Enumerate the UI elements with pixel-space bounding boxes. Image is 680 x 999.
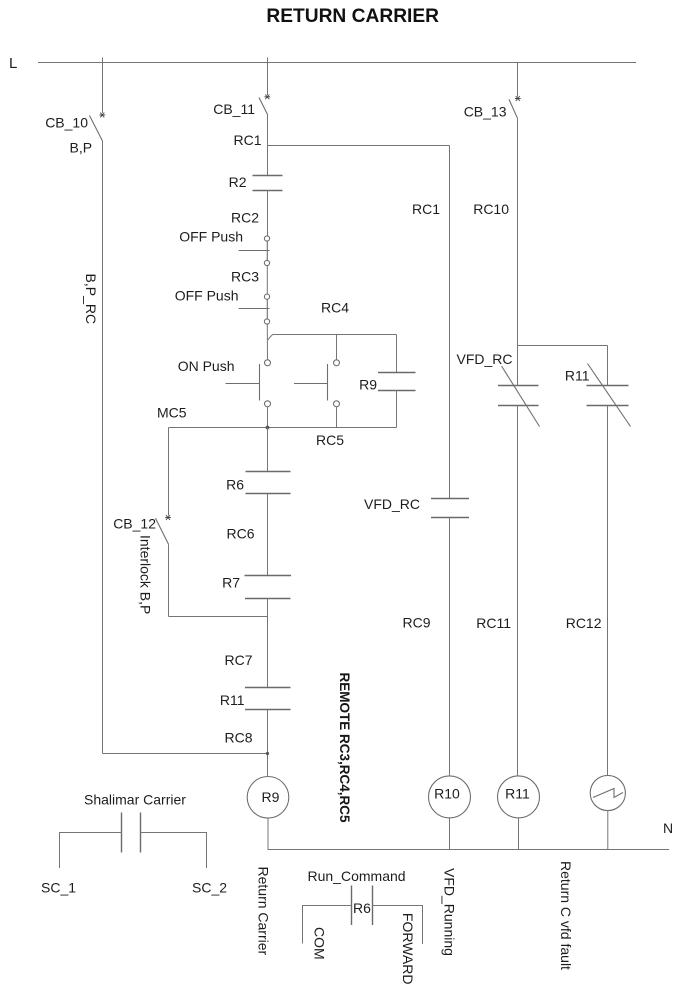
svg-text:RETURN CARRIER: RETURN CARRIER xyxy=(266,6,439,27)
svg-text:R2: R2 xyxy=(229,174,247,190)
wire SC_2 lead xyxy=(141,833,207,869)
svg-text:N: N xyxy=(663,820,673,836)
breaker CB_10 x-marker xyxy=(99,113,105,118)
wire xyxy=(267,494,269,576)
svg-text:RC10: RC10 xyxy=(473,201,509,217)
svg-text:RC6: RC6 xyxy=(226,526,254,542)
capacitor Shalimar Carrier xyxy=(122,813,141,853)
breaker CB_12 x-marker xyxy=(165,515,171,520)
N bus xyxy=(268,849,670,851)
breaker CB_11 x-marker xyxy=(264,94,270,99)
svg-text:COM: COM xyxy=(312,927,328,960)
svg-text:Return Carrier: Return Carrier xyxy=(256,867,272,956)
breaker CB_12 blade xyxy=(156,518,169,544)
svg-text:CB_13: CB_13 xyxy=(464,104,507,120)
svg-text:ON Push: ON Push xyxy=(178,358,235,374)
wire RC4 branch top xyxy=(273,334,397,336)
svg-text:RC12: RC12 xyxy=(566,615,602,631)
svg-text:VFD_RC: VFD_RC xyxy=(456,351,512,367)
contact R2 xyxy=(253,176,283,191)
wire CB_12 return branch xyxy=(169,616,268,618)
wire ON push lower stub xyxy=(267,407,269,428)
pushbutton ON Push (NO) xyxy=(226,360,271,407)
contact RC4 seal-in (NO) xyxy=(294,335,340,428)
breaker CB_11 blade xyxy=(259,98,268,115)
svg-text:SC_1: SC_1 xyxy=(41,880,76,896)
wire FORWARD lead xyxy=(373,906,423,945)
wire chamfer to RC4 branch xyxy=(268,335,273,341)
contact R11 xyxy=(245,688,291,710)
wire R11 contact column xyxy=(607,346,609,386)
svg-text:RC1: RC1 xyxy=(233,132,261,148)
svg-text:R7: R7 xyxy=(222,575,240,591)
wire RC1 column xyxy=(449,146,451,499)
svg-text:R11: R11 xyxy=(565,368,590,384)
svg-text:VFD_RC: VFD_RC xyxy=(364,496,420,512)
contact R6 (Run_Command) xyxy=(352,886,373,926)
wire xyxy=(449,518,451,777)
svg-text:RC7: RC7 xyxy=(224,652,252,668)
contact VFD_RC (NC) xyxy=(498,366,540,427)
svg-text:R6: R6 xyxy=(226,477,244,493)
svg-text:RC9: RC9 xyxy=(402,615,430,631)
coil R9 xyxy=(247,777,289,819)
breaker CB_13 blade xyxy=(509,99,518,118)
wire SC_1 lead xyxy=(60,833,122,869)
pushbutton OFF Push 2 (NC) xyxy=(239,294,270,324)
svg-text:OFF Push: OFF Push xyxy=(179,229,243,245)
svg-text:SC_2: SC_2 xyxy=(192,880,227,896)
svg-text:R6: R6 xyxy=(353,900,371,916)
contact R7 xyxy=(245,576,292,599)
svg-text:B,P: B,P xyxy=(70,140,93,156)
svg-text:CB_11: CB_11 xyxy=(213,101,255,117)
fault indicator symbol xyxy=(593,789,623,798)
fault indicator lamp xyxy=(590,775,625,810)
wire COM lead xyxy=(303,906,352,944)
wire left column xyxy=(102,141,104,754)
wire xyxy=(267,599,269,688)
contact R9 xyxy=(378,373,416,391)
wire xyxy=(449,818,451,850)
svg-text:B,P_RC: B,P_RC xyxy=(83,274,99,325)
svg-text:RC11: RC11 xyxy=(476,615,511,631)
wire xyxy=(266,266,268,294)
svg-text:RC3: RC3 xyxy=(231,269,259,285)
svg-text:Run_Command: Run_Command xyxy=(308,868,406,884)
lamp R10 xyxy=(429,776,471,818)
contact R11 (NC) xyxy=(587,364,631,427)
svg-text:R11: R11 xyxy=(220,692,245,708)
lamp R11 xyxy=(498,776,540,818)
wire main column top xyxy=(267,58,269,96)
svg-text:Shalimar Carrier: Shalimar Carrier xyxy=(84,792,186,808)
svg-text:R9: R9 xyxy=(359,377,377,393)
svg-text:VFD_Running: VFD_Running xyxy=(442,868,458,956)
wire xyxy=(607,811,609,850)
wire xyxy=(266,324,268,360)
svg-text:RC1: RC1 xyxy=(412,201,440,217)
wire CB_13 column top xyxy=(517,63,519,97)
svg-text:RC8: RC8 xyxy=(224,730,252,746)
svg-text:L: L xyxy=(9,55,17,72)
wire xyxy=(396,391,398,428)
svg-text:RC4: RC4 xyxy=(321,300,349,316)
pushbutton OFF Push 1 (NC) xyxy=(239,236,270,266)
wire xyxy=(267,115,269,176)
svg-text:Return C vfd fault: Return C vfd fault xyxy=(558,861,574,970)
svg-text:R11: R11 xyxy=(505,786,530,802)
svg-text:CB_10: CB_10 xyxy=(45,115,88,131)
junction RC8 xyxy=(266,752,269,755)
wire xyxy=(267,818,269,849)
svg-text:RC5: RC5 xyxy=(316,432,344,448)
contact VFD_RC xyxy=(431,499,469,518)
svg-text:R10: R10 xyxy=(434,786,460,802)
svg-text:FORWARD: FORWARD xyxy=(400,913,416,985)
wire xyxy=(517,118,519,385)
wire xyxy=(267,190,269,236)
wire RC8 branch xyxy=(103,753,268,755)
svg-text:OFF Push: OFF Push xyxy=(175,288,239,304)
wire xyxy=(517,406,519,777)
contact R9 branch wire xyxy=(396,335,398,373)
svg-text:REMOTE RC3,RC4,RC5: REMOTE RC3,RC4,RC5 xyxy=(337,673,352,824)
wire MC5 branch down xyxy=(168,428,170,516)
L bus xyxy=(38,62,636,64)
svg-text:CB_12: CB_12 xyxy=(113,516,156,532)
wire xyxy=(267,710,269,777)
wire left column top stub xyxy=(102,58,104,114)
wire branch to R11 contact xyxy=(518,345,608,347)
wire xyxy=(607,406,609,776)
breaker CB_10 blade xyxy=(90,116,103,142)
breaker CB_13 x-marker xyxy=(515,96,521,101)
contact R6 xyxy=(246,472,291,494)
wire xyxy=(168,544,170,616)
svg-text:MC5: MC5 xyxy=(157,405,187,421)
wire main column mid xyxy=(267,428,269,472)
junction xyxy=(266,426,270,430)
wire RC5/MC5 bottom branch xyxy=(169,427,397,429)
wire RC1 branch horizontal xyxy=(268,145,450,147)
svg-text:RC2: RC2 xyxy=(231,210,259,226)
svg-text:Interlock B,P: Interlock B,P xyxy=(138,535,154,614)
wire xyxy=(518,818,520,850)
svg-text:R9: R9 xyxy=(262,789,280,805)
